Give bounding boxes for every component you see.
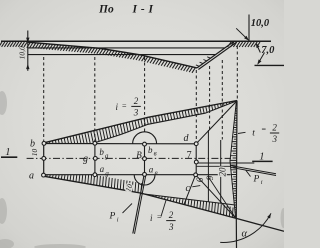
column d-7-c [195, 144, 197, 175]
svg-text:=: = [261, 125, 266, 134]
line d to peak [196, 101, 237, 144]
svg-text:1: 1 [5, 147, 10, 158]
svg-text:α: α [242, 229, 248, 240]
ticks of top slope [47, 102, 233, 144]
node g [93, 157, 97, 161]
svg-text:P: P [109, 212, 116, 222]
node a_g [93, 173, 97, 177]
natural ground surface (descending, hatched) [28, 42, 197, 68]
right lower ground line [255, 64, 285, 66]
road bottom edge a-ruler [44, 174, 231, 176]
inclined plane trace P_i (left, double) [133, 175, 144, 234]
svg-text:7: 7 [187, 150, 192, 161]
svg-text:20: 20 [217, 167, 227, 177]
svg-text:i: i [261, 179, 263, 186]
svg-text:b: b [148, 145, 153, 155]
road centerline (dash-dot) [27, 157, 231, 159]
svg-text:P: P [253, 175, 260, 185]
svg-text:i: i [117, 217, 119, 224]
road top edge b-d [44, 143, 196, 145]
node a_v [143, 173, 147, 177]
bottom slope crest C with ticks [44, 176, 285, 231]
svg-text:3: 3 [272, 134, 278, 144]
node b [42, 142, 46, 146]
hatch below ground surface [27, 43, 30, 48]
svg-text:a: a [149, 164, 154, 174]
svg-text:a: a [29, 170, 34, 181]
rising cut slope (double line) [197, 41, 235, 68]
svg-text:t: t [252, 128, 255, 138]
svg-text:2: 2 [169, 210, 174, 220]
column b_g a_g [94, 143, 96, 175]
right ruler edge R1 (outer) [235, 101, 238, 248]
svg-text:10: 10 [30, 149, 39, 157]
svg-text:10,0: 10,0 [251, 18, 270, 29]
row line right block [197, 165, 231, 167]
roadbed line L1 (7.0 level) [28, 47, 225, 49]
svg-text:b: b [30, 138, 35, 149]
svg-text:g: g [83, 154, 88, 165]
cone arc lower (around a_v) [134, 175, 155, 185]
svg-text:3: 3 [168, 222, 174, 232]
svg-text:В: В [136, 150, 142, 160]
svg-text:3: 3 [133, 108, 139, 118]
column x=221 [220, 140, 222, 203]
svg-text:=: = [122, 102, 127, 111]
svg-text:c: c [186, 183, 191, 194]
left depth dimension with rotated 10,0 [27, 31, 29, 71]
ground top line [1, 40, 271, 42]
section line 1-1 right [197, 162, 255, 164]
svg-text:2: 2 [134, 96, 139, 106]
node c-prime [194, 173, 198, 177]
node B center [143, 157, 147, 161]
svg-text:g: g [105, 152, 109, 160]
node d [194, 142, 198, 146]
ticks of bottom slope [47, 175, 234, 217]
node a [42, 173, 46, 177]
dimension 10,0 [248, 15, 250, 41]
svg-text:I - I: I - I [132, 4, 154, 16]
hatch below right platform [228, 42, 231, 47]
node 7 [194, 160, 198, 164]
column b_v a_v [144, 144, 146, 175]
top slope crest U with hatch ticks [44, 101, 237, 143]
roadbed line L2 (10.0 level) [28, 54, 216, 56]
line c to vertex [196, 175, 236, 219]
ruler ticks [230, 104, 237, 212]
line c to crest [184, 175, 196, 205]
svg-text:10,0: 10,0 [18, 46, 27, 59]
svg-text:9: 9 [205, 175, 215, 180]
svg-text:g: g [105, 169, 109, 177]
bottom slope upper line M [141, 194, 234, 205]
svg-text:=: = [157, 212, 162, 221]
cone arc upper (around b_v) [133, 132, 157, 144]
node on axis left [42, 157, 46, 161]
column x=208 [207, 130, 209, 202]
svg-text:в: в [155, 169, 158, 177]
right ruler inner R2 [230, 101, 236, 218]
svg-text:b: b [99, 147, 104, 157]
inclined plane trace P_i (right, double) [231, 166, 277, 174]
road left edge a-b [43, 143, 45, 175]
svg-text:По: По [98, 4, 114, 16]
svg-text:в: в [154, 149, 157, 157]
angle alpha arc [220, 213, 271, 242]
ground hatch left of dimension [0, 42, 2, 47]
line from col208 to vertex [208, 177, 235, 218]
node b_v [143, 142, 147, 146]
svg-text:6: 6 [195, 177, 205, 182]
node b_g [93, 141, 97, 145]
svg-text:2: 2 [272, 123, 277, 133]
projection dashed lines [43, 57, 45, 141]
svg-text:a: a [100, 164, 105, 174]
top slope toe line L [96, 101, 238, 143]
